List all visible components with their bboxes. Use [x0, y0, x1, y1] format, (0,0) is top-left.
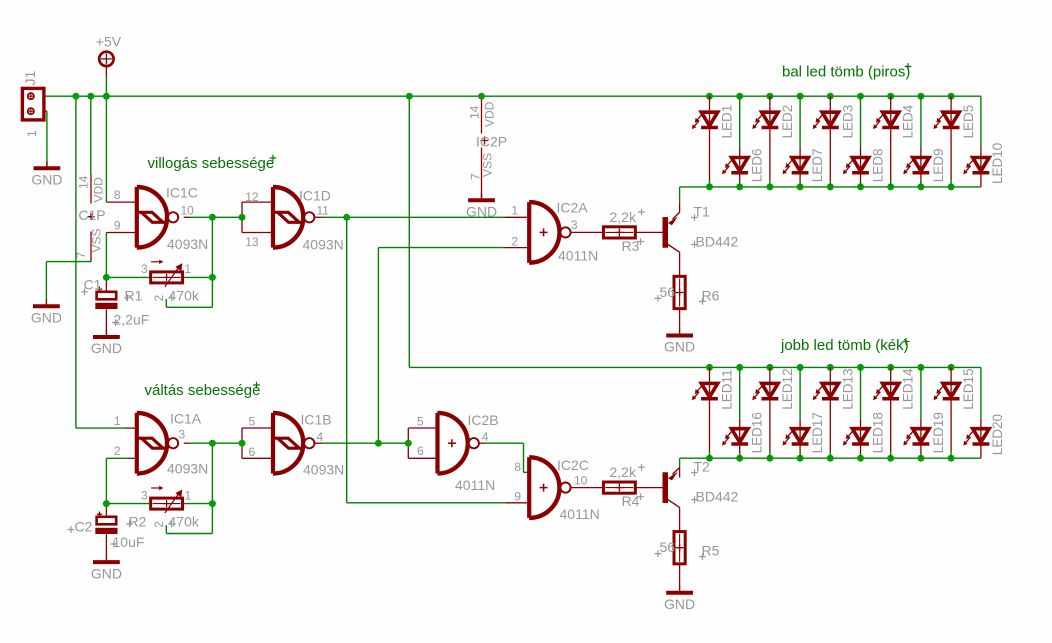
wire LED17 anode [799, 419, 801, 429]
svg-text:IC1D: IC1D [299, 188, 331, 204]
junction [406, 93, 413, 100]
wire LED13 to rail [829, 451, 831, 458]
nand gate IC2C [529, 457, 570, 518]
svg-text:4011N: 4011N [558, 248, 598, 264]
origin cross C1 value [112, 319, 119, 326]
wire LED16 cathode [739, 444, 741, 454]
origin cross T1 [691, 214, 698, 221]
junction [887, 364, 894, 371]
wire IC1A pin2 [106, 457, 128, 459]
svg-text:VDD: VDD [92, 177, 106, 203]
wire T1 collector to R6 [679, 252, 681, 276]
junction [736, 455, 743, 462]
junction IC1A out [209, 440, 216, 447]
junction [948, 93, 955, 100]
svg-text:LED20: LED20 [990, 414, 1005, 455]
pin IC1D out 11 [315, 216, 323, 218]
ground (IC2P VSS) [466, 194, 497, 220]
wire LED7 cathode [799, 173, 801, 183]
origin cross R3 [637, 238, 644, 245]
junction [103, 93, 110, 100]
junction IC1D inputs [239, 214, 246, 221]
wire +5V to IC1A pin1 (vertical) [75, 96, 77, 428]
svg-text:LED9: LED9 [931, 149, 946, 183]
wire J1 pin2 to GND [46, 111, 48, 163]
junction [917, 455, 924, 462]
origin cross C2 [68, 526, 75, 533]
trimmer R1 470k [151, 260, 183, 287]
wire LED11 anode [709, 367, 711, 383]
power gate IC1P pins 14/7 [88, 213, 95, 220]
pins IC2B 5/6 fork [408, 428, 437, 458]
wire R2 wiper down [165, 525, 167, 533]
junction node C1/R1 [103, 274, 110, 281]
junction [857, 183, 864, 190]
wire +5V supply drop [105, 77, 107, 96]
svg-text:LED16: LED16 [750, 412, 765, 453]
svg-text:IC1A: IC1A [170, 411, 202, 427]
svg-text:2,2k: 2,2k [610, 464, 637, 480]
wire node C2 to R2 pin3 [106, 503, 151, 505]
origin cross R6 value [655, 295, 662, 302]
wire R1 pin1 to node [182, 276, 212, 278]
origin cross bal led tomb [905, 63, 912, 70]
wire LED3 anode [829, 96, 831, 112]
origin cross R1 value [168, 294, 175, 301]
wire node to C1 [105, 277, 107, 291]
wire T2 collector to R5 [679, 507, 681, 531]
LED LED9 [903, 149, 946, 183]
origin cross valtas [253, 382, 260, 389]
pin IC1C 9 [106, 232, 135, 234]
origin cross jobb led tomb [903, 338, 910, 345]
wire IC2A pin2 down to IC1B out [377, 248, 379, 444]
svg-text:11: 11 [317, 204, 330, 218]
junction [72, 93, 79, 100]
wire LED20 anode [980, 418, 982, 429]
junction [766, 364, 773, 371]
junction node C2/R2 [103, 500, 110, 507]
wire +5V to IC1P VDD [90, 96, 92, 174]
junction [766, 183, 773, 190]
wire LED17 to rail [799, 454, 801, 459]
wire LED2 to rail [769, 180, 771, 187]
wire LED15 cathode [950, 399, 952, 452]
LED LED7 [783, 149, 826, 183]
junction [736, 183, 743, 190]
svg-text:14: 14 [468, 105, 482, 119]
wire J1 pin1 stub [34, 95, 44, 97]
junction R1 pin1 [209, 274, 216, 281]
wire R6 to GND [679, 309, 681, 330]
wire LED12 cathode [769, 399, 771, 452]
origin cross R1 [124, 294, 131, 301]
nand gate IC2A [529, 202, 570, 263]
wire IC1A out down to R2 [211, 443, 213, 503]
svg-text:LED11: LED11 [720, 369, 735, 409]
wire C2 to GND [105, 534, 107, 556]
wire LED2 anode [769, 96, 771, 112]
wire down to node C2 [105, 458, 107, 503]
wire LED14 anode [890, 367, 892, 383]
svg-text:IC1C: IC1C [166, 185, 198, 201]
svg-text:4: 4 [482, 430, 489, 444]
svg-text:6: 6 [249, 445, 256, 459]
wire LED9 anode [920, 148, 922, 158]
svg-text:LED1: LED1 [720, 105, 735, 139]
junction IC2B inputs [405, 440, 412, 447]
wire LED9 to rail [920, 182, 922, 187]
junction [706, 364, 713, 371]
wire LED18 anode [860, 419, 862, 429]
svg-text:2: 2 [152, 295, 166, 302]
svg-text:R2: R2 [129, 514, 147, 530]
wire T2 emitter vertical [679, 468, 681, 478]
junction [706, 455, 713, 462]
wire IC1C out to IC1D inputs [189, 216, 242, 218]
wire LED12 to rail [769, 451, 771, 458]
svg-text:GND: GND [664, 596, 695, 612]
svg-text:470k: 470k [169, 514, 200, 530]
svg-text:56: 56 [660, 539, 676, 555]
junction IC1C out [209, 214, 216, 221]
wire LED19 to rail [920, 454, 922, 459]
junction [736, 364, 743, 371]
svg-text:LED17: LED17 [810, 412, 825, 453]
junction [827, 183, 834, 190]
wire LED8 anode [860, 148, 862, 158]
pin IC1A 2 [128, 457, 135, 459]
junction [478, 93, 485, 100]
wire LED16 anode [739, 419, 741, 429]
pin IC1B out 4 [315, 442, 323, 444]
junction [736, 93, 743, 100]
wire LED6 anode [739, 148, 741, 158]
wire bank2 right edge down to LED20 [980, 367, 982, 418]
svg-text:13: 13 [245, 235, 259, 249]
wire LED15 to rail [950, 451, 952, 458]
origin cross R3 value [638, 209, 645, 216]
svg-text:9: 9 [514, 490, 521, 504]
LED LED4 [873, 104, 916, 138]
svg-text:LED14: LED14 [901, 368, 916, 410]
svg-text:BD442: BD442 [696, 234, 739, 250]
wire LED1 anode [709, 96, 711, 112]
wire IC1D out to IC2A pin1 [322, 216, 505, 218]
svg-text:1: 1 [114, 414, 121, 428]
nand gate IC1B [273, 413, 314, 474]
wire LED8 to rail [860, 182, 862, 187]
svg-text:GND: GND [31, 172, 62, 188]
junction [917, 364, 924, 371]
wire LED4 anode [890, 96, 892, 112]
junction [887, 455, 894, 462]
svg-text:12: 12 [245, 190, 259, 204]
wire to IC2C pin9 [347, 502, 506, 504]
LED LED1 [692, 105, 735, 139]
wire bank1 bottom rail [680, 186, 981, 188]
svg-text:LED2: LED2 [780, 105, 795, 139]
origin cross C1 [81, 288, 88, 295]
pin IC1C 8 [106, 201, 135, 203]
junction [827, 93, 834, 100]
svg-text:LED12: LED12 [780, 368, 795, 409]
wire C1 to GND [105, 309, 107, 331]
svg-text:3: 3 [571, 218, 578, 232]
wire LED6 to rail [739, 182, 741, 187]
wire up to R2 pin1 node [211, 504, 213, 534]
wire LED20 cathode [980, 444, 982, 458]
svg-text:56: 56 [660, 284, 676, 300]
junction IC1B inputs [239, 440, 246, 447]
nand gate IC1A [137, 413, 178, 474]
wire LED8 cathode [860, 173, 862, 183]
wire bank1 right edge down to LED10 [980, 96, 982, 147]
svg-text:8: 8 [114, 188, 121, 202]
wire J1 pin2 stub [34, 110, 47, 112]
pin IC1A out 3 [184, 442, 190, 444]
svg-text:BD442: BD442 [696, 489, 739, 505]
junction [87, 93, 94, 100]
junction [948, 364, 955, 371]
origin cross R5 [699, 553, 706, 560]
junction [857, 93, 864, 100]
svg-text:4011N: 4011N [560, 506, 600, 522]
wire LED5 cathode [950, 128, 952, 181]
svg-text:GND: GND [31, 310, 62, 326]
junction IC1D out [343, 214, 350, 221]
svg-text:GND: GND [91, 340, 122, 356]
svg-text:IC2A: IC2A [557, 200, 589, 216]
svg-text:10uF: 10uF [113, 534, 145, 550]
pin IC2C 9 [506, 502, 529, 504]
capacitor C2 10uF [95, 512, 117, 534]
LED LED5 [934, 105, 977, 139]
origin cross T1 value [691, 241, 698, 248]
wire down to IC2C pin8 [523, 443, 525, 472]
svg-text:5: 5 [249, 415, 256, 429]
pin IC1P VSS (7) [90, 232, 92, 262]
svg-text:villogás sebessége: villogás sebessége [148, 155, 275, 172]
resistor R6 56 [674, 276, 685, 308]
junction [766, 455, 773, 462]
LED LED2 [752, 105, 795, 139]
svg-text:14: 14 [77, 175, 91, 189]
wire LED1 cathode [709, 128, 711, 181]
svg-text:bal led tömb (piros): bal led tömb (piros) [782, 63, 910, 80]
wire IC1C pin9 down to node C1 [105, 233, 107, 278]
junction [948, 183, 955, 190]
svg-text:1: 1 [185, 262, 192, 276]
wire LED2 cathode [769, 128, 771, 181]
resistor R5 56 [674, 532, 685, 564]
svg-text:LED8: LED8 [871, 149, 886, 183]
ground (IC1P VSS) [31, 300, 62, 326]
LED LED11 [692, 369, 735, 409]
wire IC2A pin2 [378, 247, 506, 249]
wire LED12 anode [769, 367, 771, 383]
svg-text:4093N: 4093N [303, 462, 344, 478]
ground (R5) [664, 586, 695, 612]
svg-text:1: 1 [25, 130, 39, 137]
wire R4 to T2 base [635, 487, 662, 489]
wire LED15 anode [950, 367, 952, 383]
wire to IC1A pin1 [76, 427, 126, 429]
wire LED3 cathode [829, 128, 831, 181]
wire R2 wiper to pin1 net [166, 533, 212, 535]
wire LED17 from rail [799, 367, 801, 418]
svg-text:GND: GND [466, 204, 497, 220]
wire LED7 to rail [799, 182, 801, 187]
wire LED9 from rail [920, 96, 922, 147]
svg-text:C2: C2 [75, 519, 93, 535]
svg-text:C1: C1 [84, 277, 102, 293]
wire R1 wiper down [165, 299, 167, 307]
svg-text:10: 10 [181, 204, 195, 218]
wire R3 to T1 base [635, 231, 662, 233]
svg-text:IC1P: IC1P [75, 207, 106, 223]
junction [948, 455, 955, 462]
wire LED9 cathode [920, 173, 922, 183]
wire R1 wiper to pin1 net [166, 306, 212, 308]
junction [797, 364, 804, 371]
wire LED18 from rail [860, 367, 862, 418]
wire LED16 to rail [739, 454, 741, 459]
junction [887, 183, 894, 190]
wire LED4 cathode [890, 128, 892, 181]
junction [917, 183, 924, 190]
wire IC1P VSS to GND [46, 261, 91, 263]
wire IC2C out to R4 [571, 487, 604, 489]
svg-text:1: 1 [185, 488, 192, 502]
wire bank2 top rail [409, 366, 981, 368]
wire T1 emitter to bank1 rail [679, 187, 681, 203]
origin cross C2 value [111, 541, 118, 548]
svg-text:VDD: VDD [483, 101, 497, 127]
svg-text:LED13: LED13 [840, 368, 855, 409]
junction IC2A pin2 net [375, 440, 382, 447]
wire IC2A out to R3 [571, 231, 604, 233]
svg-text:LED4: LED4 [901, 104, 916, 138]
wire +5V to IC1C pin8 [105, 96, 107, 202]
junction [706, 183, 713, 190]
wire LED7 from rail [799, 96, 801, 147]
svg-text:LED7: LED7 [810, 149, 825, 183]
svg-text:3: 3 [141, 262, 148, 276]
wire node C1 to R1 pin3 [106, 276, 151, 278]
wire LED17 cathode [799, 444, 801, 454]
svg-text:VSS: VSS [90, 228, 104, 252]
wire LED7 anode [799, 148, 801, 158]
origin cross T2 [691, 469, 698, 476]
wire bank2 bottom rail [680, 457, 981, 459]
wire LED11 cathode [709, 399, 711, 452]
wire LED6 from rail [739, 96, 741, 147]
svg-text:LED19: LED19 [931, 412, 946, 453]
transistor T2 BD442 [663, 468, 680, 508]
wire R5 to GND [679, 564, 681, 587]
resistor R4 2.2k [603, 482, 635, 493]
origin cross R5 value [655, 550, 662, 557]
wire into IC2C pin8 [524, 471, 530, 473]
svg-text:LED18: LED18 [871, 412, 886, 453]
pin IC2B out 4 [479, 442, 485, 444]
ground (C2) [91, 555, 122, 581]
svg-text:3: 3 [141, 488, 148, 502]
wire VSS GND drop [45, 262, 47, 300]
svg-text:jobb led tömb (kék): jobb led tömb (kék) [780, 337, 909, 354]
svg-text:4093N: 4093N [303, 237, 344, 253]
svg-text:R3: R3 [622, 238, 640, 254]
svg-text:3: 3 [179, 428, 186, 442]
LED LED17 [783, 412, 826, 453]
pin IC2A 2 [505, 247, 529, 249]
junction [706, 93, 713, 100]
junction [827, 455, 834, 462]
origin cross R6 [699, 298, 706, 305]
pins IC1D 12/13 fork [242, 202, 273, 232]
ground (R6) [664, 329, 695, 355]
svg-text:7: 7 [469, 173, 483, 180]
LED LED13 [813, 368, 856, 409]
svg-text:5: 5 [417, 415, 424, 429]
wire T2 emitter to bank2 rail [679, 458, 681, 468]
pin IC1C out 10 [184, 216, 190, 218]
svg-text:4011N: 4011N [455, 477, 495, 493]
svg-text:LED10: LED10 [990, 143, 1005, 184]
wire LED10 anode [980, 147, 982, 158]
junction [887, 93, 894, 100]
svg-text:4: 4 [317, 430, 324, 444]
wire LED4 to rail [890, 180, 892, 187]
svg-text:10: 10 [574, 474, 588, 488]
svg-text:IC2B: IC2B [468, 412, 499, 428]
svg-text:LED3: LED3 [840, 105, 855, 139]
LED LED10 [963, 143, 1005, 184]
wire LED5 anode [950, 96, 952, 112]
svg-text:GND: GND [664, 339, 695, 355]
trimmer R2 470k [151, 486, 183, 513]
wire LED13 cathode [829, 399, 831, 452]
origin cross R2 [126, 521, 133, 528]
LED LED8 [843, 149, 886, 183]
ground (J1 pin2) [31, 162, 62, 188]
wire LED1 to rail [709, 180, 711, 187]
wire +5V top rail [44, 95, 981, 97]
LED LED15 [934, 368, 977, 409]
wire R2 pin1 to node [182, 503, 212, 505]
origin cross R4 value [638, 464, 645, 471]
wire IC1D out down to IC2C pin9 (vertical) [346, 217, 348, 503]
svg-text:váltás sebessége: váltás sebessége [145, 382, 261, 399]
wire LED19 cathode [920, 444, 922, 454]
pin IC2A 1 [505, 216, 529, 218]
capacitor C1 2.2uF [95, 287, 117, 309]
wire LED13 anode [829, 367, 831, 383]
pin IC1P VDD (14) [90, 175, 92, 204]
LED LED3 [813, 105, 856, 139]
origin cross T2 value [691, 496, 698, 503]
transistor T1 BD442 [663, 212, 680, 252]
svg-text:8: 8 [514, 460, 521, 474]
power gate IC2P pins 14/7 [481, 96, 483, 200]
svg-text:4093N: 4093N [167, 236, 208, 252]
svg-text:+5V: +5V [96, 34, 122, 50]
wire LED16 from rail [739, 367, 741, 418]
pin IC1A 1 [126, 427, 135, 429]
svg-text:2: 2 [511, 235, 518, 249]
junction [766, 93, 773, 100]
